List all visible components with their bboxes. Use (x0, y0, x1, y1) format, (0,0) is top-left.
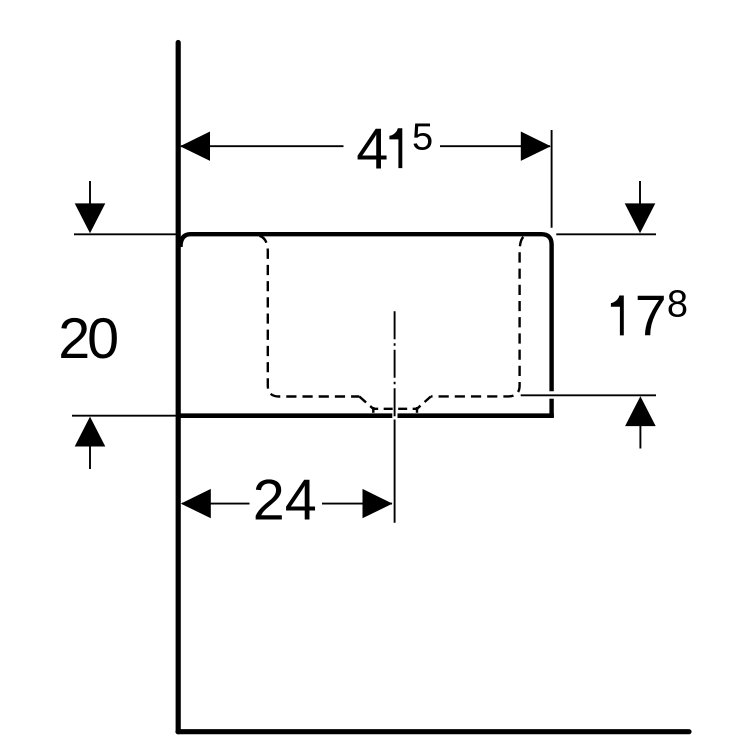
dimension 41.5: right arrow (521, 132, 551, 161)
dimension 20: bottom extension line (72, 415, 178, 417)
basin right wall lower stub (549, 399, 553, 418)
dimension 41.5: line left segment (181, 145, 344, 147)
dimension 17.8: top arrow (down) (625, 203, 656, 233)
dimension 20: bottom arrow (up) (75, 417, 106, 447)
dimension 17.8: value text digit 1 (611, 296, 624, 336)
wall line (176, 43, 181, 732)
dimension 17.8: bottom arrow stub (639, 426, 641, 449)
dimension 24: right arrow (363, 489, 393, 518)
svg-text:20: 20 (58, 307, 117, 371)
dimension 20: top arrow stub (89, 181, 91, 204)
svg-text:4: 4 (356, 117, 388, 181)
svg-text:5: 5 (412, 117, 433, 159)
basin outline: top edge and right wall upper part (181, 234, 552, 391)
centerline (dash-dot) (394, 311, 396, 419)
dimension 17.8: top extension line (556, 233, 656, 235)
floor line (178, 729, 689, 734)
drain tick left (372, 407, 374, 413)
centerline extension (solid, for dim 24) (394, 420, 396, 523)
drain tick right (416, 407, 418, 413)
dimension 20: top extension line (74, 233, 178, 235)
dimension 17.8: top arrow stub (639, 181, 641, 204)
svg-text:24: 24 (253, 469, 317, 533)
dimension 41.5: value text digit 1 (389, 128, 402, 168)
dimension 41.5: left arrow (180, 132, 210, 161)
dimension 17.8: bottom arrow (up) (625, 396, 656, 426)
dimension 41.5: right extension line (551, 130, 553, 228)
inner bowl right wall (dashed) (431, 237, 524, 396)
dimension 24: line left segment (182, 503, 250, 505)
dimension 24: left arrow (181, 489, 211, 518)
basin bottom edge right segment (398, 413, 554, 418)
dimension 20: bottom arrow stub (89, 446, 91, 469)
svg-text:7: 7 (635, 284, 667, 348)
dimension 24: line right segment (322, 503, 392, 505)
svg-text:8: 8 (667, 284, 688, 326)
dimension 17.8: bottom extension line (521, 394, 656, 396)
inner bowl left wall (dashed) (260, 236, 360, 397)
basin bottom edge left segment (178, 413, 392, 418)
dimension 41.5: line right segment (440, 145, 550, 147)
drain funnel (dashed) (359, 397, 431, 409)
dimension 20: top arrow (down) (75, 203, 106, 233)
